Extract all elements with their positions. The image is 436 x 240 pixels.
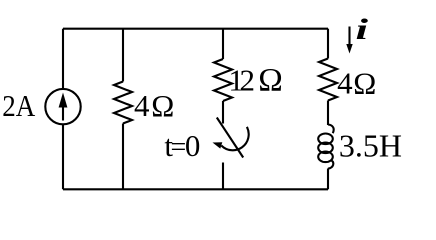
svg-text:2A: 2A	[2, 88, 36, 123]
svg-text:3.5H: 3.5H	[339, 128, 402, 164]
svg-text:Ω: Ω	[151, 88, 174, 123]
svg-text:0: 0	[185, 128, 201, 163]
svg-text:2: 2	[240, 62, 256, 97]
svg-text:Ω: Ω	[353, 65, 376, 100]
svg-text:4: 4	[134, 88, 150, 123]
svg-text:i: i	[356, 13, 369, 46]
svg-text:Ω: Ω	[258, 62, 283, 98]
svg-text:4: 4	[337, 65, 353, 100]
